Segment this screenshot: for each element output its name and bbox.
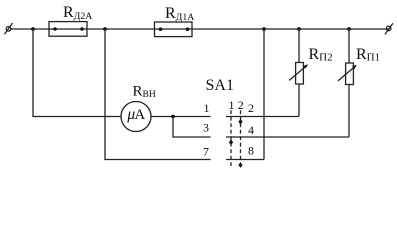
wire rail to pin8 [263,29,265,160]
svg-text:RП2: RП2 [309,46,333,64]
node junction x173 [171,115,175,119]
svg-text:2: 2 [238,98,244,112]
svg-text:SA1: SA1 [206,77,234,94]
switch contact diamond row7 [238,162,242,168]
node junction x349 [347,27,351,31]
switch contact diamond row1 [238,119,242,125]
rheostat RП2 [289,29,309,117]
wire rail to pin7 [105,29,211,160]
node junction x33 [31,27,35,31]
wire to pin3 [173,117,211,138]
switch contact diamond row3 [229,139,233,145]
svg-text:RВН: RВН [133,83,156,100]
svg-text:RП1: RП1 [356,46,380,64]
svg-text:7: 7 [203,144,209,158]
node junction x299 [297,27,301,31]
wire row 3-4 [226,136,349,138]
svg-text:RД2А: RД2А [63,4,92,22]
switch SA1 gang 1 dashed shaft [230,110,232,166]
node junction x105 [103,27,107,31]
svg-text:1: 1 [204,101,210,115]
wire rail to meter [33,29,121,117]
terminal left [5,23,13,34]
wire meter to pin1 [151,116,211,118]
wire row 1-2 [226,116,299,118]
switch SA1 gang 2 dashed shaft [240,110,242,162]
node junction x264 [262,27,266,31]
wire top rail [11,28,390,30]
svg-text:8: 8 [248,144,254,158]
resistor RД1А [155,22,193,37]
svg-text:3: 3 [203,120,209,134]
terminal right [385,23,393,34]
svg-text:1: 1 [229,98,235,112]
svg-text:RД1А: RД1А [165,5,194,23]
resistor RД2А [49,22,87,37]
wire row 7-8 [226,159,264,161]
svg-text:4: 4 [248,123,254,137]
op-amp meter PA μA [121,102,151,132]
svg-text:A: A [134,107,145,123]
rheostat RП1 [338,29,358,137]
svg-text:2: 2 [248,101,254,115]
